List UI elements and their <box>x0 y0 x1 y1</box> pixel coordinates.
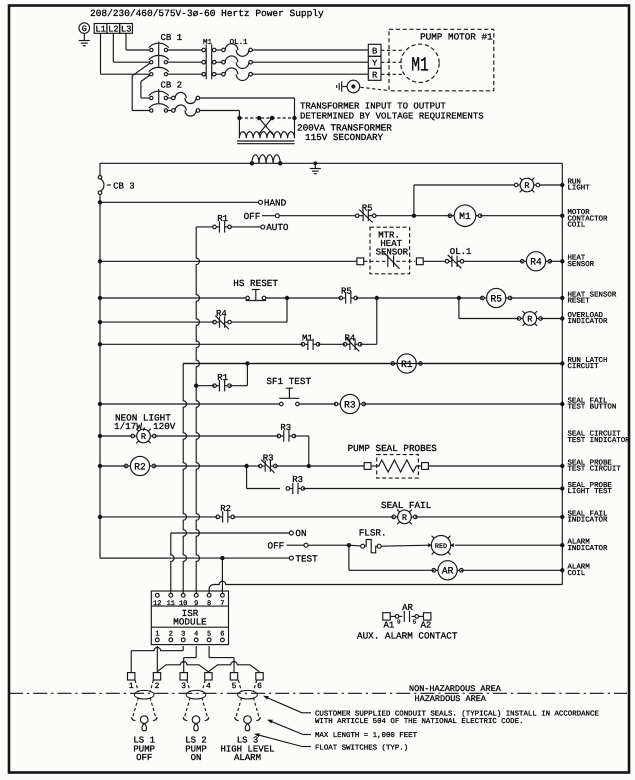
svg-text:9: 9 <box>194 600 198 608</box>
svg-text:M1: M1 <box>203 39 213 47</box>
svg-text:3: 3 <box>181 631 185 639</box>
svg-text:M1: M1 <box>411 55 429 78</box>
svg-text:HAZARDOUS AREA: HAZARDOUS AREA <box>415 694 487 704</box>
svg-text:COIL: COIL <box>568 222 586 230</box>
svg-text:OFF: OFF <box>268 541 285 552</box>
svg-text:RESET: RESET <box>568 298 591 306</box>
svg-text:ALARM: ALARM <box>234 753 261 763</box>
svg-text:SENSOR: SENSOR <box>568 261 595 269</box>
svg-text:A1: A1 <box>384 621 395 631</box>
svg-text:R2: R2 <box>220 504 231 514</box>
svg-text:CB 1: CB 1 <box>161 33 183 43</box>
svg-text:INDICATOR: INDICATOR <box>568 545 608 553</box>
svg-text:CB 3: CB 3 <box>113 182 135 192</box>
svg-text:A2: A2 <box>421 621 432 631</box>
svg-text:LIGHT: LIGHT <box>568 185 591 193</box>
svg-text:R2: R2 <box>134 461 146 472</box>
svg-text:R3: R3 <box>263 453 274 463</box>
svg-text:AUTO: AUTO <box>266 222 289 233</box>
svg-text:L3: L3 <box>121 25 132 35</box>
svg-text:TEST: TEST <box>295 553 318 564</box>
svg-text:AR: AR <box>442 566 454 577</box>
svg-text:R: R <box>402 513 407 523</box>
svg-text:TRANSFORMER INPUT TO OUTPUT: TRANSFORMER INPUT TO OUTPUT <box>300 102 446 112</box>
svg-text:5: 5 <box>413 619 417 626</box>
svg-text:4: 4 <box>206 682 211 691</box>
svg-text:1: 1 <box>155 631 159 639</box>
svg-text:R: R <box>141 432 146 442</box>
svg-text:6: 6 <box>257 682 262 691</box>
svg-text:AUX. ALARM CONTACT: AUX. ALARM CONTACT <box>357 630 458 641</box>
svg-text:115V SECONDARY: 115V SECONDARY <box>305 132 384 143</box>
svg-text:3: 3 <box>181 682 186 691</box>
svg-text:OL.1: OL.1 <box>450 247 472 257</box>
svg-text:R1: R1 <box>401 359 413 370</box>
svg-text:R: R <box>524 181 529 191</box>
svg-text:CB 2: CB 2 <box>161 81 183 91</box>
svg-text:MAX LENGTH = 1,000 FEET: MAX LENGTH = 1,000 FEET <box>315 732 418 740</box>
svg-text:SENSOR: SENSOR <box>376 248 409 258</box>
svg-text:R5: R5 <box>490 293 502 304</box>
svg-text:B: B <box>372 47 377 57</box>
svg-text:12: 12 <box>153 600 161 608</box>
svg-text:LIGHT TEST: LIGHT TEST <box>568 488 613 496</box>
svg-text:TEST INDICATOR: TEST INDICATOR <box>568 437 631 445</box>
svg-text:ON: ON <box>295 528 306 539</box>
svg-text:R1: R1 <box>217 373 228 383</box>
svg-text:Y: Y <box>372 59 378 69</box>
svg-text:SF1 TEST: SF1 TEST <box>266 376 311 387</box>
svg-text:R: R <box>527 315 532 325</box>
svg-text:OL.1: OL.1 <box>230 38 249 47</box>
svg-text:1: 1 <box>129 682 134 691</box>
svg-text:M1: M1 <box>459 211 471 222</box>
svg-text:CIRCUIT: CIRCUIT <box>568 363 600 371</box>
svg-text:MODULE: MODULE <box>173 616 207 627</box>
svg-text:OFF: OFF <box>244 211 261 222</box>
svg-text:SEAL FAIL: SEAL FAIL <box>381 500 431 511</box>
svg-text:HAND: HAND <box>264 198 287 209</box>
svg-text:WITH ARTICLE 504 OF THE NATION: WITH ARTICLE 504 OF THE NATIONAL ELECTRI… <box>315 718 523 726</box>
svg-text:PUMP MOTOR #1: PUMP MOTOR #1 <box>420 32 493 43</box>
svg-text:7: 7 <box>220 600 224 608</box>
svg-text:COIL: COIL <box>568 570 586 578</box>
svg-text:4: 4 <box>194 631 198 639</box>
svg-text:HS RESET: HS RESET <box>233 278 278 289</box>
svg-text:R5: R5 <box>341 286 352 296</box>
svg-text:5: 5 <box>207 631 211 639</box>
svg-text:R3: R3 <box>280 423 291 433</box>
svg-text:208/230/460/575V-3ø-60 Hertz P: 208/230/460/575V-3ø-60 Hertz Power Suppl… <box>90 8 324 19</box>
svg-text:TEST BUTTON: TEST BUTTON <box>568 404 617 412</box>
svg-text:PUMP SEAL PROBES: PUMP SEAL PROBES <box>348 443 438 454</box>
svg-text:R4: R4 <box>530 257 542 268</box>
svg-text:FLOAT SWITCHES (TYP.): FLOAT SWITCHES (TYP.) <box>315 743 408 752</box>
svg-text:1/17W, 120V: 1/17W, 120V <box>114 421 176 432</box>
svg-text:6: 6 <box>220 631 224 639</box>
svg-text:INDICATOR: INDICATOR <box>568 517 608 525</box>
svg-text:L1: L1 <box>95 25 106 35</box>
svg-text:FLSR.: FLSR. <box>359 527 387 538</box>
svg-text:L2: L2 <box>108 25 119 35</box>
svg-text:DETERMINED BY VOLTAGE REQUIREM: DETERMINED BY VOLTAGE REQUIREMENTS <box>300 112 484 122</box>
svg-text:R3: R3 <box>344 399 356 410</box>
svg-text:11: 11 <box>167 600 175 608</box>
svg-text:R: R <box>372 71 378 81</box>
svg-text:TEST CIRCUIT: TEST CIRCUIT <box>568 466 622 474</box>
svg-text:OFF: OFF <box>136 753 152 763</box>
svg-text:2: 2 <box>155 682 160 691</box>
svg-text:ON: ON <box>191 753 202 763</box>
svg-text:RED: RED <box>435 543 447 551</box>
svg-text:5: 5 <box>232 682 237 691</box>
svg-text:10: 10 <box>179 600 187 608</box>
svg-text:9: 9 <box>397 619 401 626</box>
svg-text:R1: R1 <box>217 214 228 224</box>
svg-text:G: G <box>82 25 87 34</box>
svg-text:2: 2 <box>169 631 173 639</box>
svg-text:8: 8 <box>207 600 211 608</box>
svg-text:NON-HAZARDOUS AREA: NON-HAZARDOUS AREA <box>409 684 502 694</box>
svg-text:INDICATOR: INDICATOR <box>568 318 608 326</box>
